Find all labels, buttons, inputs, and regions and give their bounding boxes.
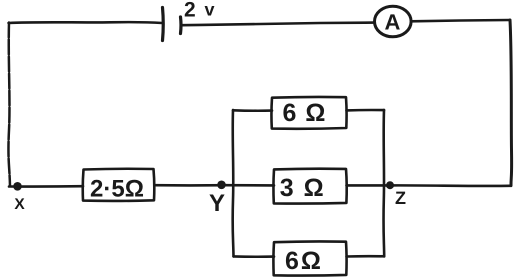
node X dot: [13, 182, 22, 191]
wire bottom branch right: [347, 255, 385, 258]
wire middle resistor to node Z: [347, 184, 391, 187]
svg-text:Z: Z: [395, 188, 406, 208]
wire right vertical: [510, 20, 512, 186]
svg-text:Y: Y: [209, 190, 225, 217]
resistor R2 box (top 6 ohm): [271, 97, 346, 129]
wire ammeter to top-right corner: [411, 20, 509, 21]
wire battery to ammeter: [182, 23, 375, 26]
wire left vertical (top-left corner to node X): [8, 23, 10, 187]
svg-text:2·5Ω: 2·5Ω: [90, 176, 144, 203]
wire node X to resistor R1: [9, 185, 83, 188]
node Z dot: [386, 181, 394, 189]
resistor R4 box (bottom 6 ohm): [273, 241, 346, 275]
wire bottom-right horizontal (corner to node Z): [390, 184, 511, 187]
svg-text:X: X: [14, 196, 25, 213]
svg-text:v: v: [205, 0, 215, 20]
svg-text:2: 2: [184, 0, 196, 22]
wire top-left horizontal (corner to battery): [9, 21, 163, 25]
svg-text:6Ω: 6Ω: [285, 247, 323, 275]
svg-text:6 Ω: 6 Ω: [283, 99, 327, 127]
ammeter U1 circle: [375, 6, 412, 37]
battery B1 long plate: [161, 8, 165, 41]
wire left bus vertical: [231, 110, 234, 257]
wire top branch left: [233, 109, 272, 112]
wire node Y to middle resistor: [225, 184, 274, 187]
resistor R3 box (middle 3 ohm): [273, 169, 346, 204]
svg-text:A: A: [385, 10, 401, 35]
wire bottom branch left: [234, 255, 275, 258]
resistor R1 box: [83, 169, 155, 201]
node Y dot: [217, 181, 226, 190]
wire top branch right: [347, 109, 385, 112]
svg-text:3 Ω: 3 Ω: [280, 174, 325, 202]
wire resistor R1 to node Y: [155, 184, 227, 187]
wire right bus vertical: [382, 110, 385, 256]
battery B1 short plate: [179, 17, 183, 34]
